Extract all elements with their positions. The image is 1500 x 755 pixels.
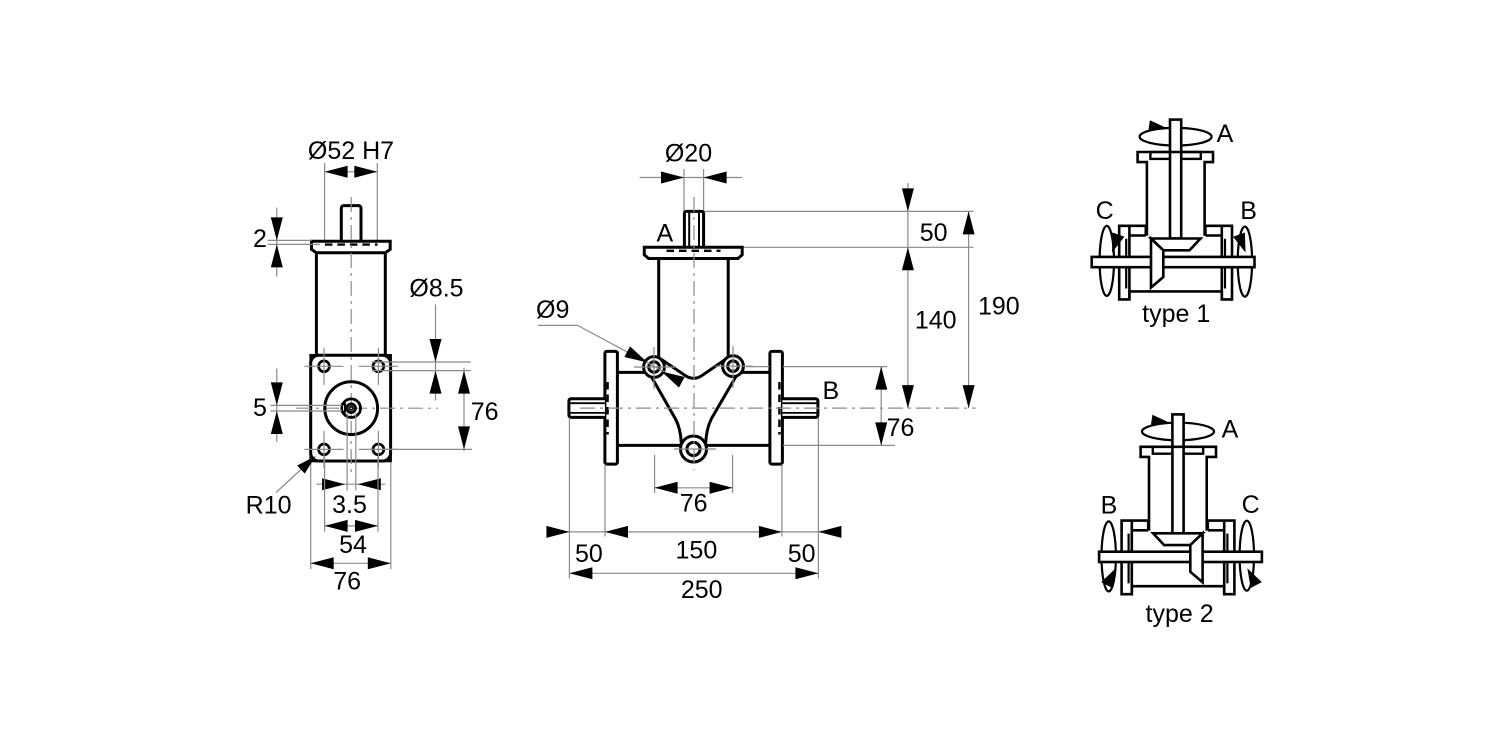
type 2 diagram: right shaft rotation ellipse bbox=[1102, 521, 1116, 591]
type 2 diagram: left flange cap outline bbox=[1208, 521, 1235, 595]
svg-text:type 1: type 1 bbox=[1142, 300, 1210, 328]
middle view: left shaft inner line bottom bbox=[570, 412, 605, 414]
left view: bottom hole ref line bbox=[383, 448, 472, 450]
left view: bolt hole 1 crosshair v bbox=[323, 348, 325, 385]
middle view: right boss outer bbox=[723, 356, 744, 377]
svg-text:5: 5 bbox=[253, 394, 267, 422]
svg-text:50: 50 bbox=[788, 540, 816, 568]
left view: Ø52 right extension line bbox=[376, 163, 378, 242]
middle view: bottom boss crosshair h bbox=[674, 448, 716, 450]
middle view: bottom boss hole bbox=[687, 442, 700, 455]
svg-text:76: 76 bbox=[680, 490, 708, 518]
left view: bolt hole 3 bbox=[319, 444, 330, 455]
left view: front plate (rounded R10) bbox=[311, 355, 391, 461]
left view: dim 2 upper ref line bbox=[268, 239, 312, 241]
type 2: rotation arrow A bbox=[1151, 415, 1169, 425]
left view: bolt hole 2 crosshair v bbox=[377, 348, 379, 385]
middle view: left boss hole Ø9 bbox=[649, 362, 660, 373]
middle view: bottom boss outer bbox=[681, 436, 707, 462]
middle view: ext line boss center right (outer) bbox=[783, 366, 887, 368]
left view: Ø8.5 lower arrow bbox=[430, 371, 442, 394]
type 1 diagram: right flange inner line bbox=[1224, 239, 1226, 289]
type 1 diagram: left cap top step line bbox=[1129, 234, 1145, 237]
middle view: dim 50 right outside arrow bbox=[818, 526, 841, 538]
middle view: dim 150 left arrow bbox=[605, 526, 628, 538]
left view: dim 76 right arrow bbox=[368, 557, 391, 569]
left view: vertical centerline bbox=[350, 197, 352, 476]
type 1 diagram: top flange outline bbox=[1138, 152, 1213, 236]
left view: shaft circle Ø20 bbox=[342, 399, 361, 418]
middle view: V notch bbox=[662, 359, 727, 378]
svg-text:Ø9: Ø9 bbox=[536, 296, 569, 324]
svg-text:50: 50 bbox=[920, 219, 948, 247]
type 2 diagram: input shaft rotation ellipse A bbox=[1142, 423, 1214, 441]
left view: center hole inner bbox=[350, 407, 353, 410]
svg-text:Ø8.5: Ø8.5 bbox=[409, 275, 463, 303]
middle view: shaft A bbox=[684, 211, 703, 248]
type 1 diagram: flange pilot rect bbox=[1150, 152, 1200, 159]
left view: R10 arrow bbox=[297, 456, 316, 474]
left view: keyway slot bbox=[342, 404, 345, 411]
middle view: dim 50 left outside arrow bbox=[546, 526, 569, 538]
type 1 diagram: horizontal through shaft bbox=[1092, 257, 1255, 267]
type 1 diagram: left flange cap outline bbox=[1119, 226, 1146, 300]
type 1 diagram: vertical shaft A bbox=[1170, 120, 1181, 239]
middle view: right boss crosshair v bbox=[732, 346, 734, 388]
type 2 diagram: right cap top step line bbox=[1132, 529, 1148, 532]
left view: plate corner wedge BR bbox=[383, 453, 391, 461]
svg-text:250: 250 bbox=[681, 576, 723, 604]
type 2: rotation arrow C bbox=[1247, 568, 1262, 588]
type 1 diagram: bevel gear horizontal bbox=[1151, 239, 1201, 251]
middle view: body bottom line bbox=[617, 444, 770, 447]
middle view: Ø20 left ext line bbox=[683, 169, 685, 211]
middle view: left shaft B bbox=[569, 399, 605, 418]
middle view: dim 76 boss left arrow bbox=[655, 482, 678, 494]
svg-text:54: 54 bbox=[339, 531, 367, 559]
middle view: dim 50/140 vertical line bbox=[907, 183, 909, 408]
middle view: left flange bbox=[605, 351, 618, 464]
svg-text:3.5: 3.5 bbox=[332, 491, 367, 519]
middle view: Ø9 arrow upper bbox=[624, 346, 647, 362]
middle view: right flange bbox=[770, 351, 783, 464]
svg-text:R10: R10 bbox=[246, 492, 292, 520]
left view: Ø52 left extension line bbox=[324, 163, 326, 242]
type 1 diagram: input shaft rotation ellipse A bbox=[1140, 128, 1212, 146]
type 1 diagram: bevel gear vertical bbox=[1151, 239, 1163, 288]
middle view: neck right edge bbox=[727, 259, 730, 357]
type 1 diagram: right flange plate line bbox=[1221, 226, 1224, 299]
svg-text:76: 76 bbox=[887, 414, 915, 442]
left view: dim 76 left extension line bbox=[310, 462, 312, 569]
middle view: ext line right shaft end bbox=[817, 417, 819, 578]
left view: dim 5 lower ref line bbox=[270, 410, 342, 412]
middle view: ext line left boss bbox=[654, 455, 656, 493]
svg-text:Ø20: Ø20 bbox=[665, 140, 712, 168]
middle view: dim 190 top arrow bbox=[963, 211, 975, 234]
middle view: dim 140 bottom arrow bbox=[902, 385, 914, 408]
svg-text:C: C bbox=[1242, 491, 1260, 519]
middle view: ext line left shaft end bbox=[568, 417, 570, 578]
left view: hidden recess line (flange) bbox=[325, 243, 378, 245]
middle view: dim 76 right up arrow bbox=[875, 367, 887, 390]
svg-text:2: 2 bbox=[253, 225, 267, 253]
type 2 diagram: left flange plate line bbox=[1223, 521, 1226, 595]
left view: Ø8.5 upper arrow bbox=[430, 339, 442, 362]
left view: dim 76 dimension line bbox=[311, 562, 391, 564]
left view: Ø52 left arrow bbox=[325, 166, 348, 178]
type 1 diagram: right flange cap outline bbox=[1205, 226, 1232, 300]
middle view: dim 150 right arrow bbox=[759, 526, 782, 538]
middle view: shaft A inner line left bbox=[688, 213, 690, 247]
left view: Ø8.5 vertical line bbox=[435, 305, 437, 401]
middle view: horizontal centerline bbox=[580, 407, 976, 409]
left view: top flange bbox=[312, 241, 391, 253]
svg-text:50: 50 bbox=[575, 540, 603, 568]
type 1 diagram: right cap top step line bbox=[1205, 234, 1221, 237]
middle view: dim 190 vertical line bbox=[968, 211, 970, 408]
middle view: dim 250 right arrow bbox=[795, 567, 818, 579]
middle view: dim 76 boss right arrow bbox=[710, 482, 733, 494]
left view: bolt hole 3 crosshair v bbox=[323, 431, 325, 468]
svg-text:A: A bbox=[656, 220, 673, 248]
left view: dim 2 lower arrow bbox=[271, 244, 283, 267]
type 2 diagram: bevel gear vertical bbox=[1190, 533, 1202, 582]
type 2 diagram: right flange cap outline bbox=[1122, 521, 1149, 595]
middle view: left shaft inner line top bbox=[570, 402, 605, 404]
left view: dim 54 right arrow bbox=[355, 520, 378, 532]
svg-text:Ø52 H7: Ø52 H7 bbox=[308, 137, 394, 165]
left view: dim 5 upper ref line bbox=[270, 404, 342, 406]
middle view: left boss outer bbox=[644, 357, 665, 378]
left view: plate corner wedge BL bbox=[311, 453, 319, 461]
svg-text:A: A bbox=[1217, 120, 1234, 148]
svg-text:C: C bbox=[1096, 197, 1114, 225]
middle view: right boss hole Ø9 bbox=[728, 361, 739, 372]
middle view: right shaft inner line top bbox=[782, 402, 817, 404]
left view: bolt hole 1 bbox=[319, 361, 330, 372]
svg-text:type 2: type 2 bbox=[1146, 600, 1214, 628]
left view: dim 2 lower ref line bbox=[268, 243, 320, 245]
middle view: body top line left bbox=[617, 371, 646, 374]
svg-text:B: B bbox=[1101, 492, 1118, 520]
middle view: Ø20 left arrow bbox=[661, 172, 684, 184]
left view: bolt hole 4 crosshair v bbox=[377, 431, 379, 468]
middle view: neck left edge bbox=[657, 259, 660, 358]
left view: dim 76 left arrow bbox=[311, 557, 334, 569]
left view: bolt hole 4 crosshair h bbox=[359, 448, 398, 450]
left view: bolt hole 3 crosshair h bbox=[305, 448, 344, 450]
left view: bolt hole 2 crosshair h bbox=[359, 365, 398, 367]
type 1: rotation arrow B bbox=[1233, 233, 1245, 253]
left view: Ø52 right arrow bbox=[354, 166, 377, 178]
left view: plate corner wedge TL bbox=[311, 355, 319, 363]
left view: big bore circle Ø52 bbox=[325, 382, 378, 435]
type 1: rotation arrow A bbox=[1148, 120, 1166, 130]
svg-text:190: 190 bbox=[978, 293, 1020, 321]
type 1 diagram: body bottom line bbox=[1129, 290, 1221, 293]
left view: center hole bbox=[347, 404, 355, 412]
middle view: Ø20 right ext line bbox=[703, 169, 705, 211]
type 2 diagram: left cap top step line bbox=[1208, 529, 1224, 532]
type 2 diagram: flange pilot rect bbox=[1153, 447, 1203, 454]
left view: dim 5 lower arrow bbox=[271, 411, 283, 434]
svg-text:B: B bbox=[823, 377, 840, 405]
left view: dim 3.5 dimension line bbox=[317, 483, 386, 485]
type 2 diagram: bevel gear horizontal bbox=[1153, 533, 1203, 545]
middle view: ext line right boss bbox=[732, 455, 734, 493]
middle view: dim 76 right vertical line bbox=[880, 367, 882, 446]
middle view: shaft A inner line right bbox=[698, 213, 700, 247]
left view: bolt hole 4 bbox=[373, 444, 384, 455]
left view: bolt hole 1 crosshair h bbox=[305, 365, 344, 367]
middle view: dim 76 boss dimension line bbox=[655, 487, 733, 489]
left view: Ø52 dimension line bbox=[325, 171, 378, 173]
left view: Ø8.5 lower ref line bbox=[372, 370, 471, 372]
middle view: vertical centerline bbox=[693, 197, 695, 470]
left view: body right edge bbox=[384, 253, 387, 355]
left view: dim 3.5 left arrow bbox=[322, 478, 345, 490]
left view: dim 76 right bottom arrow bbox=[458, 426, 470, 449]
left view: dim 2 vertical line bbox=[276, 208, 278, 277]
type 2 diagram: right flange inner line bbox=[1127, 534, 1129, 584]
middle view: ext line 50 bottom bbox=[743, 246, 974, 248]
type 1 diagram: right shaft rotation ellipse bbox=[1238, 227, 1252, 297]
middle view: left boss crosshair h bbox=[634, 366, 676, 368]
middle view: ext line left flange bbox=[604, 464, 606, 536]
left view: dim 54 left arrow bbox=[325, 520, 348, 532]
middle view: web right edge bbox=[706, 375, 737, 443]
middle view: Ø9 leader underline bbox=[538, 324, 578, 326]
svg-text:76: 76 bbox=[471, 398, 499, 426]
svg-text:140: 140 bbox=[915, 307, 957, 335]
middle view: web left edge bbox=[651, 376, 682, 444]
left view: body corner square behind plate bbox=[311, 355, 391, 461]
svg-text:A: A bbox=[1222, 416, 1239, 444]
left view: dimension 76 right vertical line bbox=[463, 368, 465, 451]
left view: dim 3.5 right arrow bbox=[358, 478, 381, 490]
middle view: dim 76 right down arrow bbox=[875, 422, 887, 445]
middle view: ext line boss center right (inner) bbox=[746, 366, 770, 368]
type 1 diagram: left flange inner line bbox=[1125, 239, 1127, 289]
middle view: dim 250 dimension line bbox=[569, 572, 818, 574]
type 2 diagram: top flange outline bbox=[1141, 447, 1216, 531]
type 2 diagram: body bottom line bbox=[1132, 585, 1224, 588]
left view: dim 3.5 right extension line bbox=[355, 413, 357, 491]
left view: dim 54 left extension line bbox=[324, 456, 326, 532]
middle view: body top line right bbox=[741, 371, 770, 374]
middle view: top flange bbox=[644, 247, 742, 258]
middle view: right flange bolt circle (hidden) bbox=[778, 382, 780, 435]
left view: dim 2 upper arrow bbox=[271, 217, 283, 240]
type 1: rotation arrow C bbox=[1112, 233, 1124, 253]
middle view: dim 250 left arrow bbox=[569, 567, 592, 579]
left view: top shaft bbox=[341, 206, 361, 243]
left view: bolt hole 2 bbox=[373, 361, 384, 372]
middle view: right shaft B bbox=[782, 399, 818, 418]
middle view: Ø20 dimension line bbox=[640, 177, 743, 179]
middle view: Ø20 right arrow bbox=[704, 172, 727, 184]
type 1 diagram: left shaft rotation ellipse bbox=[1100, 226, 1114, 296]
left view: dim 76 right top arrow bbox=[458, 371, 470, 394]
middle view: ext line right flange bbox=[781, 464, 783, 536]
type 2: rotation arrow B bbox=[1101, 568, 1116, 588]
left view: plate corner wedge TR bbox=[383, 355, 391, 363]
type 1 diagram: left flange plate line bbox=[1128, 226, 1131, 299]
svg-text:76: 76 bbox=[333, 568, 361, 596]
middle view: ext line 50 top bbox=[705, 210, 974, 212]
svg-text:150: 150 bbox=[676, 537, 718, 565]
type 2 diagram: right flange plate line bbox=[1131, 521, 1134, 595]
left view: dim 54 right extension line bbox=[377, 456, 379, 532]
middle view: Ø9 leader line bbox=[578, 325, 681, 380]
middle view: left boss crosshair v bbox=[653, 347, 655, 389]
middle view: right boss crosshair h bbox=[715, 365, 753, 367]
type 2 diagram: left shaft rotation ellipse bbox=[1240, 521, 1254, 591]
type 2 diagram: left flange inner line bbox=[1226, 534, 1228, 584]
svg-text:B: B bbox=[1240, 197, 1257, 225]
left view: R10 leader line bbox=[276, 459, 313, 493]
middle view: left flange bolt circle (hidden) bbox=[606, 382, 608, 435]
type 2 diagram: horizontal through shaft bbox=[1099, 552, 1262, 562]
middle view: dim line 50-150-50 bbox=[547, 531, 842, 533]
middle view: ext line body bottom right bbox=[783, 444, 895, 446]
left view: dim 5 vertical line bbox=[276, 368, 278, 442]
middle view: flange hidden line bbox=[667, 250, 721, 252]
middle view: right shaft inner line bottom bbox=[782, 412, 817, 414]
type 2 diagram: vertical shaft A bbox=[1172, 414, 1183, 533]
left view: dim 3.5 left extension line bbox=[346, 413, 348, 491]
left view: dim 5 upper arrow bbox=[271, 382, 283, 405]
left view: dim 76 right extension line bbox=[390, 462, 392, 569]
left view: Ø8.5 upper ref line bbox=[372, 361, 471, 363]
left view: horizontal centerline bbox=[296, 407, 438, 409]
left view: body left edge bbox=[315, 253, 318, 355]
middle view: dim 50/140 middle arrow bbox=[902, 247, 914, 270]
left view: dim 54 dimension line bbox=[325, 525, 378, 527]
middle view: Ø9 arrow lower bbox=[662, 372, 685, 388]
middle view: dim 50 top arrow bbox=[902, 188, 914, 211]
middle view: dim 190 bottom arrow bbox=[963, 385, 975, 408]
